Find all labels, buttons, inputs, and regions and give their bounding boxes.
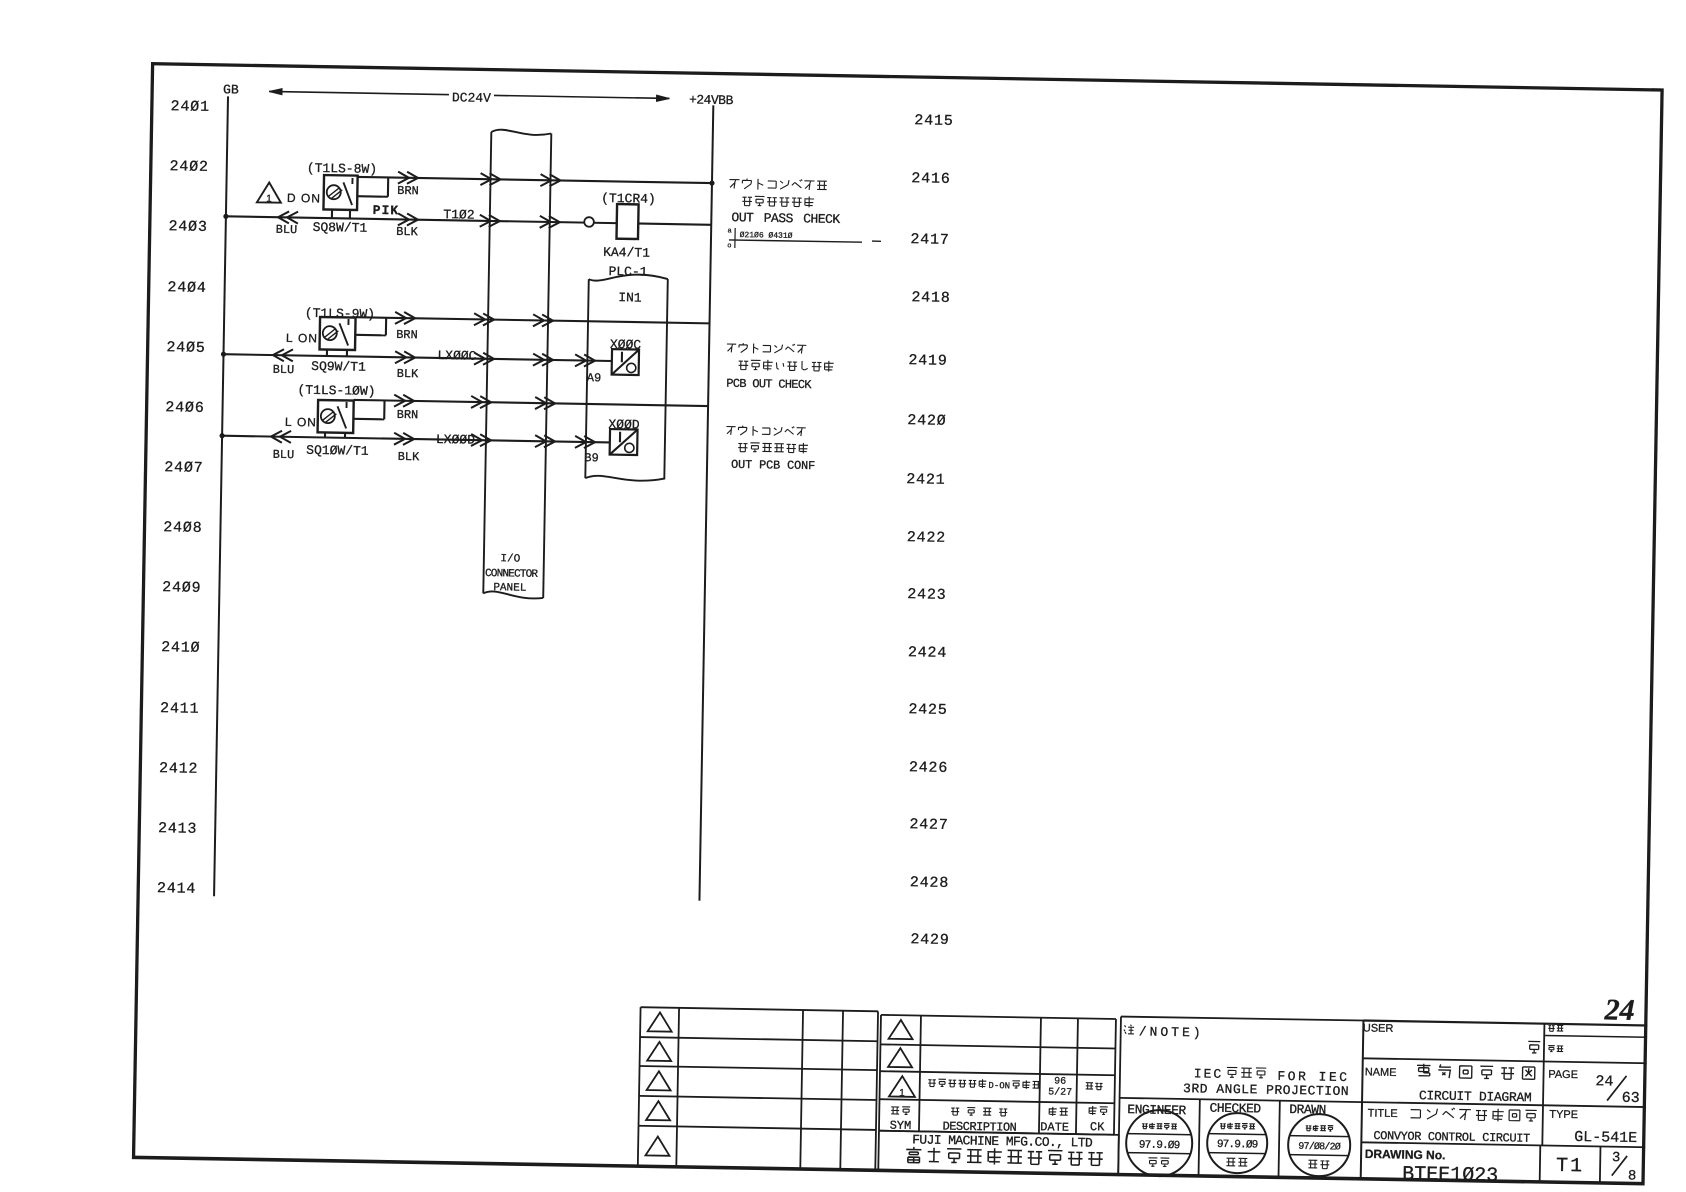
label BLU (row 2406) xyxy=(273,449,295,462)
limit switch SQ10W/T1 (T1LS-10W) xyxy=(317,400,353,438)
left revision table frame xyxy=(638,1007,878,1171)
header ENGINEER xyxy=(1127,1103,1186,1118)
left line-number column 2401-2414 xyxy=(170,99,209,116)
left revision table triangles xyxy=(645,1012,671,1155)
company name kanji Fuji Kikai Seizo KK xyxy=(906,1147,921,1163)
junction +24VBB / BRN wire xyxy=(709,180,714,185)
label D ON xyxy=(287,192,321,206)
wire BRN row 2402 (SQ8W NO contact to +24VBB bus) xyxy=(358,177,712,183)
label LX00D xyxy=(436,433,475,448)
label L ON (SQ10W) xyxy=(285,416,317,430)
chevrons row 2406 LX00D xyxy=(271,431,291,443)
label NAME xyxy=(1365,1068,1397,1080)
annotation katakana OUT CONVEYOR (X00D) xyxy=(726,426,735,434)
label A9 xyxy=(587,372,602,385)
second revision table frame xyxy=(878,1015,1121,1176)
small wire-number note 02106 04310 xyxy=(740,232,793,242)
label BRN (SQ8W) xyxy=(397,185,419,198)
wire BRN row 2404 (SQ9W NO contact to +24VBB bus) xyxy=(356,317,710,323)
header CHECKED xyxy=(1209,1102,1260,1117)
label SQ9W/T1 xyxy=(311,360,366,375)
label T102 xyxy=(443,209,474,224)
I/O connector panel (vertical band with wavy ends) xyxy=(491,130,551,136)
chevrons row 2405 xyxy=(273,349,293,361)
+24VBB bus wire (right vertical) xyxy=(699,105,713,900)
annotation kanji PCB discharge confirm xyxy=(739,361,749,370)
label BLU (row 2405) xyxy=(273,364,295,377)
header DESCRIPTION xyxy=(942,1121,1016,1135)
label BRN (SQ9W) xyxy=(396,329,418,342)
label BLK (row 2405) xyxy=(397,368,419,381)
label BLK (row 2406) xyxy=(398,451,420,464)
chevrons row 2406 xyxy=(394,395,414,407)
label 3RD ANGLE PROJECTION xyxy=(1183,1082,1349,1099)
name kanji DENKI KAIRO SENZU xyxy=(1417,1064,1431,1076)
wire jog SQ8W xyxy=(357,195,388,198)
GB bus wire (left vertical) xyxy=(214,96,228,896)
wire LX00D row 2406/2407 (GB bus through SQ10W to PLC input X00D) xyxy=(222,436,610,443)
approval stamp 木越 xyxy=(1288,1019,1648,1185)
label BLU (row 2403) xyxy=(276,224,298,237)
revision triangle 1 with number xyxy=(889,1076,915,1097)
revision 1 CK stamp mark xyxy=(1086,1083,1093,1089)
wire LX00C row 2405 (GB bus through SQ9W to PLC input X00C) xyxy=(224,354,612,361)
relay coil KA4/T1 (T1CR4) xyxy=(616,204,638,239)
title block right section frame xyxy=(1361,1021,1648,1186)
note underline and ticks xyxy=(729,240,862,242)
label LX00C xyxy=(437,349,476,364)
label NOTE xyxy=(1139,1025,1204,1040)
label KA4/T1 xyxy=(603,245,650,260)
annotation kanji PCB arrival confirm xyxy=(738,444,747,452)
label X00D xyxy=(608,418,639,433)
wire BRN row 2406 (SQ10W NO contact to +24VBB bus) xyxy=(354,400,708,406)
company name FUJI MACHINE MFG.CO., LTD xyxy=(912,1134,1092,1151)
label dono (殿) xyxy=(1528,1041,1540,1053)
label SQ8W/T1 xyxy=(313,220,368,235)
sheet 3/8 xyxy=(1612,1151,1621,1166)
handwritten page number 24 xyxy=(1604,994,1635,1027)
connector circle node row 2403 xyxy=(584,217,594,227)
header DATE xyxy=(1040,1122,1069,1135)
second revision table triangles xyxy=(888,1020,913,1068)
label DRAWING No. xyxy=(1365,1148,1446,1162)
label GB xyxy=(223,84,239,98)
label (T1LS-8W) xyxy=(307,162,377,177)
sheet code T1 xyxy=(1556,1156,1584,1178)
label USER xyxy=(1363,1023,1394,1035)
label I/O CONNECTOR PANEL xyxy=(500,554,520,566)
label L ON (SQ9W) xyxy=(286,332,318,346)
label (T1CR4) xyxy=(601,191,656,206)
chevrons row 2404 xyxy=(395,312,415,324)
wire jog SQ10W xyxy=(353,418,384,421)
label TITLE xyxy=(1368,1108,1398,1120)
junction GB bus / LX00C wire xyxy=(221,352,226,357)
title kanji CONVEYOR CONTROL CIRCUIT xyxy=(1411,1110,1421,1118)
limit switch SQ9W/T1 (T1LS-9W) xyxy=(319,317,355,357)
approval stamp 本田 xyxy=(1207,1018,1648,1185)
type GL-541E xyxy=(1574,1130,1637,1147)
PLC input symbol X00C xyxy=(612,349,639,375)
label BLK (row 2403) xyxy=(396,226,418,239)
label SQ10W/T1 xyxy=(306,444,369,459)
label PAGE xyxy=(1548,1069,1578,1081)
junction GB bus / LX00D wire xyxy=(219,433,224,438)
label DC24V xyxy=(449,91,494,106)
drawing number BTEE1023 xyxy=(1402,1164,1498,1187)
header CK xyxy=(1090,1121,1105,1134)
label (T1LS-9W) xyxy=(305,306,375,321)
annotation katakana OUT CONVEYOR (X00C) xyxy=(727,344,736,352)
label X00C xyxy=(610,338,641,353)
annotation kanji PCB pass confirm xyxy=(742,197,752,206)
middle line-number column 2415-2429 xyxy=(914,113,953,130)
header DRAWN xyxy=(1289,1103,1326,1118)
label (T1LS-10W) xyxy=(297,383,375,398)
wire jog SQ9W xyxy=(355,334,386,337)
chevron connectors row 2402 xyxy=(398,172,418,184)
label seiban cell xyxy=(1548,1046,1555,1052)
label B9 xyxy=(584,452,599,465)
revision 1 date 96 5/27 xyxy=(1054,1078,1066,1089)
chevrons row 2403 xyxy=(278,211,298,223)
engineer/checked/drawn row frame xyxy=(1198,1099,1279,1179)
label IN1 xyxy=(618,291,642,305)
approval stamp 足立 xyxy=(1126,1016,1648,1185)
PLC-1 IN1 block (vertical band with wavy ends) xyxy=(589,274,668,282)
label IEC FOR IEC xyxy=(1194,1067,1224,1082)
label bunrui cell xyxy=(1548,1026,1554,1032)
label +24VBB xyxy=(689,93,733,108)
label PLC-1 xyxy=(608,265,647,280)
annotation katakana OUT CONVEYOR SIDE xyxy=(729,180,739,189)
revision 1 description kanji xyxy=(928,1080,936,1087)
DC24V supply rail arrow line xyxy=(269,91,669,98)
page number 24/63 xyxy=(1595,1074,1613,1090)
header SYM xyxy=(890,1120,912,1133)
PLC input symbol X00D xyxy=(610,429,638,455)
label BRN (SQ10W) xyxy=(397,409,419,422)
warning triangle 1 near SQ8W xyxy=(257,182,281,202)
label PCB OUT CHECK xyxy=(726,377,811,391)
junction GB bus / T102 wire xyxy=(223,214,228,219)
label CIRCUIT DIAGRAM xyxy=(1419,1089,1532,1105)
limit switch SQ8W/T1 (T1LS-8W) xyxy=(323,175,357,219)
label PIK xyxy=(373,204,400,218)
label TYPE xyxy=(1549,1109,1578,1121)
wire T102 row 2403 (GB bus through SQ8W, relay KA4/T1, to +24VBB bus) xyxy=(226,216,711,224)
label OUT PASS CHECK xyxy=(731,211,839,227)
label OUT PCB CONF xyxy=(731,458,815,472)
NOTE block frame xyxy=(1118,1016,1647,1185)
label CONVYOR CONTROL CIRCUIT xyxy=(1373,1130,1530,1146)
